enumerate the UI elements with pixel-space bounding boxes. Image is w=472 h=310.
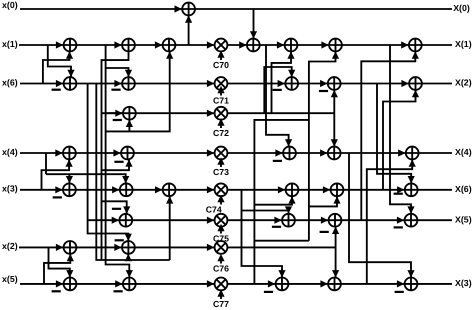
arrow into M76 [207, 244, 214, 251]
wire R3 up to A1f bottom [309, 51, 336, 113]
svg-text:C77: C77 [213, 299, 229, 309]
coefficient arrow C77 [220, 295, 222, 299]
arrow into A5e [323, 186, 330, 193]
svg-text:C70: C70 [213, 60, 229, 70]
coefficient arrow C74 [220, 201, 222, 205]
adder A2d [328, 77, 341, 90]
minus at A2a [52, 89, 61, 91]
adder A1a [64, 39, 77, 52]
svg-text:X(6): X(6) [455, 184, 472, 194]
coefficient arrow C70 [220, 56, 222, 60]
wire down to A5a top [68, 174, 70, 183]
net x(4)/X(4) [20, 152, 452, 154]
wire R2 branch down to A7b/A5c bottoms [96, 84, 169, 261]
multiplier M75 [215, 214, 228, 227]
minus at A5a [53, 196, 62, 198]
wire tee to A3a and A1c bottoms [106, 51, 170, 131]
arrow into A5a [55, 186, 62, 193]
svg-text:x(0): x(0) [2, 0, 18, 10]
adder A6a [119, 214, 132, 227]
minus at A8c [264, 291, 273, 293]
adder A1f [329, 39, 342, 52]
adder A8e [405, 278, 418, 291]
minus at A3a [113, 119, 122, 121]
wire x(5) up to A7a [44, 254, 70, 284]
arrow into A8b [115, 280, 122, 287]
adder A8d [328, 278, 341, 291]
svg-text:x(4): x(4) [2, 147, 18, 157]
adder A8b [123, 278, 136, 291]
wire R2 branch down to A5f top [377, 84, 411, 184]
svg-text:x(5): x(5) [2, 274, 18, 284]
wire X6 branch up to A4e bottom [367, 159, 412, 189]
net x(1)/X(1) [19, 44, 452, 46]
adder A8a [64, 278, 77, 291]
svg-text:C71: C71 [213, 96, 229, 106]
wire branch to A2c top [264, 67, 291, 113]
svg-text:X(3): X(3) [455, 278, 472, 288]
wire up to A5c bottom [169, 196, 171, 260]
wire tee to A6b top [242, 211, 289, 214]
adder A2c [285, 77, 298, 90]
adder A1c [163, 39, 176, 52]
net x(3)/X(6) [20, 189, 452, 191]
net t6/X(5) [88, 219, 453, 221]
wire R3 jog down [254, 120, 309, 284]
adder A6d [405, 214, 418, 227]
adder A1d [247, 39, 260, 52]
wire x(3) up to A4a [42, 159, 70, 189]
wire R4 branch down to A8e top [349, 153, 411, 278]
adder A5f [405, 183, 418, 196]
arrow into A7b [114, 244, 121, 251]
wire x(4) down to A5a [45, 153, 47, 174]
arrow into A1b [114, 41, 121, 48]
minus at A5f [394, 193, 403, 195]
multiplier M76 [215, 241, 228, 254]
wire x(6) up to A1a [43, 51, 70, 83]
adder A1g [409, 39, 422, 52]
adder A6c [329, 214, 342, 227]
arrow into A8c [268, 280, 275, 287]
wire X6 branch up to A2e bottom [383, 90, 416, 190]
wire tee to A2b top [106, 68, 129, 77]
svg-text:x(1): x(1) [2, 39, 18, 49]
adder A4a [63, 147, 76, 160]
multiplier M72 [215, 107, 228, 120]
arrow into A1e [277, 41, 284, 48]
adder A2b [122, 77, 135, 90]
arrow into A0 [175, 5, 182, 12]
net x(5)/X(3) [20, 283, 452, 285]
svg-text:C72: C72 [213, 128, 229, 138]
adder A7b [122, 241, 135, 254]
arrow into M73 [207, 149, 214, 156]
wire tee to A5e bottom [309, 196, 337, 206]
minus at A2c [273, 89, 282, 91]
arrow into M77 [207, 280, 214, 287]
adder A5e [331, 183, 344, 196]
minus at A4c [273, 160, 282, 162]
arrow into A1f [321, 41, 328, 48]
wire x(2) down to A8a [49, 247, 70, 277]
wire tee up to A3a bottom [128, 120, 130, 132]
arrow into A4e [398, 149, 405, 156]
multiplier M71 [215, 77, 228, 90]
wire R3 end up to A2d bottom [333, 90, 335, 113]
arrow into A6b [274, 217, 281, 224]
adder A4e [406, 147, 419, 160]
wire tee to A3a left [102, 112, 124, 114]
wire R1 to A0 [188, 15, 190, 45]
multiplier M73 [215, 147, 228, 160]
svg-text:x(2): x(2) [2, 241, 18, 251]
arrow into A1d [239, 41, 246, 48]
arrow into A1c [155, 41, 162, 48]
adder A5a [63, 183, 76, 196]
arrow into A5c [155, 186, 162, 193]
wire to A5a/A5b tops [46, 174, 126, 183]
adder A5d [286, 183, 299, 196]
wire up to A1e bottom [272, 51, 292, 113]
minus at A6c [320, 231, 329, 233]
svg-text:C76: C76 [213, 264, 229, 274]
arrow into A6c [321, 217, 328, 224]
arrow into A2b [114, 80, 121, 87]
minus at A7b [115, 239, 124, 241]
wire R1 branch down to A6d top [390, 45, 411, 214]
coefficient arrow C73 [220, 163, 222, 167]
arrow into A8d [320, 280, 327, 287]
svg-text:C73: C73 [213, 167, 229, 177]
net x(2) [19, 246, 336, 248]
arrow into A1g [401, 41, 408, 48]
arrow into M70 [207, 41, 214, 48]
adder A4b [121, 147, 134, 160]
minus at A6b [272, 226, 281, 228]
arrow into A6a [112, 217, 119, 224]
multiplier M77 [215, 278, 228, 291]
minus at A2d [319, 90, 328, 92]
adder A4d [328, 147, 341, 160]
coefficient arrow C71 [220, 92, 222, 96]
adder A2e [409, 77, 422, 90]
svg-text:x(3): x(3) [2, 184, 18, 194]
arrow into A2a [56, 80, 63, 87]
minus at A8a [52, 290, 61, 292]
net x(0)/X(0) [20, 8, 452, 10]
adder A8c [276, 278, 289, 291]
arrow into A8a [56, 280, 63, 287]
adder A4c [283, 147, 296, 160]
svg-text:X(5): X(5) [455, 214, 472, 224]
arrow into A5f [397, 186, 404, 193]
arrow into M75 [207, 217, 214, 224]
wire up to A7b bottom [127, 254, 129, 260]
wire X6 junction down to X3 row [366, 190, 368, 284]
svg-text:x(6): x(6) [2, 77, 18, 87]
wire tee to A5d bottom [254, 196, 292, 205]
adder A7a [64, 241, 77, 254]
minus at A8e [395, 291, 404, 293]
svg-text:X(0): X(0) [453, 3, 470, 13]
wire R3 end down to A4d top [333, 113, 335, 146]
arrow into M74 [207, 186, 214, 193]
arrow into A6d [397, 217, 404, 224]
multiplier M74 [215, 183, 228, 196]
wire R2 branch down to R6 start and A7b top [88, 84, 129, 242]
arrow into A1a [56, 41, 63, 48]
wire x(1) down to A2a [48, 45, 71, 77]
wire X5 branch up to A1g bottom [361, 51, 415, 220]
arrow into A4c [275, 149, 282, 156]
multiplier M70 [215, 39, 228, 52]
wire R1 branch down to A8b top [106, 45, 130, 278]
svg-text:X(2): X(2) [455, 78, 472, 88]
wire R7 end up to A6c bottom [335, 227, 337, 248]
arrow into A4a [55, 149, 62, 156]
svg-text:C74: C74 [206, 205, 222, 215]
wire cross link [254, 240, 309, 242]
wire R7 end down to A8d top [335, 247, 337, 277]
svg-text:C75: C75 [213, 234, 229, 244]
adder A1b [122, 39, 135, 52]
adder A2a [64, 77, 77, 90]
svg-text:X(4): X(4) [455, 147, 472, 157]
adder A5c [163, 183, 176, 196]
coefficient arrow C76 [220, 260, 222, 264]
adder A6b [282, 214, 295, 227]
minus at A4b [114, 161, 123, 163]
svg-text:X(1): X(1) [455, 39, 472, 49]
arrow into A5d [278, 186, 285, 193]
wire to A4b bottom [102, 159, 130, 170]
wire R3 down [308, 113, 310, 241]
wire to A1b bottom then down [102, 51, 129, 260]
adder A1e [285, 39, 298, 52]
wire R0 to A1d [253, 9, 255, 39]
adder A0 [182, 3, 195, 16]
minus at A6a [112, 208, 121, 210]
adder A3a [123, 107, 136, 120]
wire R1 branch down to A4c top [266, 45, 289, 147]
arrow into A4b [113, 149, 120, 156]
arrow into A2d [320, 80, 327, 87]
coefficient arrow C75 [220, 230, 222, 234]
minus at A8b [114, 290, 123, 292]
adder A5b [120, 183, 133, 196]
arrow into A3a [115, 110, 122, 117]
arrow into A8e [397, 280, 404, 287]
arrow into A5b [112, 186, 119, 193]
arrow into M71 [207, 80, 214, 87]
minus at A2b [111, 89, 120, 91]
coefficient arrow C72 [220, 124, 222, 128]
wire tee to A6a top [102, 201, 127, 214]
net x(6)/X(2) [20, 83, 452, 85]
wire X6 branch down to A8c top [242, 190, 283, 278]
arrow into A7a [56, 244, 63, 251]
minus at A6d [394, 226, 403, 228]
arrow into A2e [401, 80, 408, 87]
arrow into M72 [207, 110, 214, 117]
arrow into A4d [320, 149, 327, 156]
arrow into A2c [278, 80, 285, 87]
net t3 [106, 112, 334, 114]
